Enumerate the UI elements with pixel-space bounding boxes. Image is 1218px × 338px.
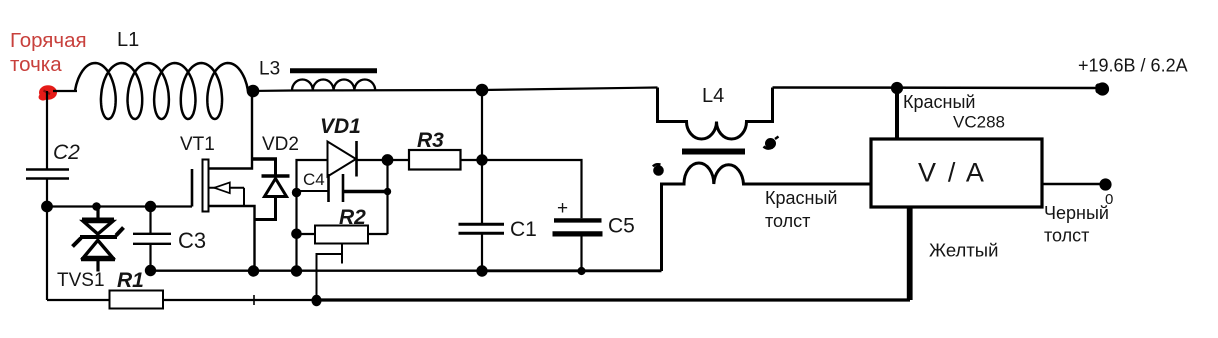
node: x296/C4 [293,189,300,196]
label Черный толст [1044,203,1109,246]
wire: bottom rail left of R1 [47,299,110,301]
transistor VT1 (MOSFET) [192,91,255,271]
resistor R2 [297,226,388,244]
svg-text:C5: C5 [608,215,635,238]
transformer L4 core [682,149,745,155]
node: junction L1/VT1 drain [248,86,258,96]
capacitor C1 [459,224,505,233]
inductor L3 winding [292,80,375,91]
TVS diode TVS1 [73,207,124,272]
svg-text:точка: точка [10,53,62,76]
svg-text:толст: толст [1044,226,1089,246]
node: x482 / R3 [477,155,486,164]
svg-text:C1: C1 [510,218,537,241]
wire: L1 to L3 junction [248,89,292,92]
node: C4 / x387 [385,189,390,194]
inductor L1 [75,63,248,119]
diode VD1 [328,141,410,177]
svg-text:толст: толст [765,211,810,231]
node: C3 top [146,202,155,211]
node: TVS1 top [93,203,99,209]
node: C3 bottom / mid rail start [146,266,155,275]
terminal: 0 output [1101,180,1111,190]
svg-text:Черный: Черный [1044,203,1109,223]
wire: x387 vertical (VD1 cathode to R2) [386,160,388,234]
svg-text:V / A: V / A [918,158,986,188]
wire: meter to 0 terminal [1042,183,1106,186]
svg-text:C2: C2 [53,141,80,164]
node: VD1 cathode / R3 [383,155,393,165]
wire: C5 branch [482,160,582,218]
wire: left rail upper [46,91,48,170]
svg-text:VD1: VD1 [320,115,361,138]
svg-text:VD2: VD2 [262,134,299,155]
capacitor C3 [133,207,171,271]
svg-text:L3: L3 [259,59,280,80]
capacitor C5 (electrolytic) [553,220,603,271]
svg-text:R3: R3 [417,129,444,152]
transformer L4 secondary [662,163,872,271]
svg-text:R2: R2 [339,206,366,229]
wire: bottom rail R1 to V/A [163,299,910,301]
svg-text:Желтый: Желтый [929,240,998,261]
wire: mid rail (0V secondary) [151,270,662,272]
wire: top rail right [773,86,1103,89]
terminal: +output [1097,84,1109,95]
svg-text:+: + [557,198,568,219]
phasing dot secondary [653,164,663,174]
capacitor C2 [26,170,69,179]
node: hot point (red dot) [39,85,58,100]
inductor L3 core bar [290,68,377,73]
svg-text:R1: R1 [117,269,144,292]
stray tick on bottom rail [253,295,255,305]
svg-text:TVS1: TVS1 [57,270,105,291]
svg-text:L4: L4 [702,85,724,107]
node: left rail / gate rail [42,202,52,212]
svg-text:L1: L1 [117,29,139,51]
node: top rail / C1 branch [477,85,487,95]
svg-text:Красный: Красный [903,92,975,112]
svg-text:VT1: VT1 [180,134,215,155]
node: R2 wiper / bottom rail [313,296,321,305]
svg-text:+19.6В / 6.2А: +19.6В / 6.2А [1078,56,1188,76]
R2 wiper tap [317,244,343,301]
svg-text:C4: C4 [303,170,325,189]
wire: top rail to meter [895,88,899,139]
resistor R3 [409,150,482,170]
meter box VC288 [871,139,1042,207]
wire: x482 vertical [481,90,483,272]
wire: hot point to L1 [53,90,77,92]
node: C5 / mid rail [579,268,585,274]
capacitor C4 [297,174,388,202]
svg-text:C3: C3 [178,228,206,253]
diode VD2 [252,159,290,220]
svg-text:Красный: Красный [765,188,837,208]
transformer L4 primary [658,88,773,140]
node: x482 / mid rail [477,266,486,275]
wire: net vertical x296 [297,160,328,271]
label Красный толст [765,188,837,231]
node: x296/mid rail [292,266,301,275]
resistor R1 [110,291,164,309]
node: VT1 source / bottom mid rail [249,266,258,275]
wire: left rail lower [46,179,48,301]
phasing dot primary [764,137,779,149]
svg-text:VC288: VC288 [953,113,1005,132]
wire: meter bottom (yellow lead) [907,206,913,300]
wire: top rail L3 to L4 [292,88,658,91]
wire: gate rail [47,205,192,207]
label: Горячая точка (red) [10,29,87,76]
node: top rail / meter [892,83,902,93]
node: x296/R2 [292,230,300,238]
svg-text:Горячая: Горячая [10,29,87,52]
